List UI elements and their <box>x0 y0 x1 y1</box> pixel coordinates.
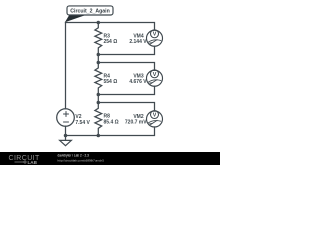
svg-text:V: V <box>153 113 157 119</box>
svg-text:V: V <box>153 72 157 78</box>
svg-text:4.676 V: 4.676 V <box>129 79 147 85</box>
svg-text:davidryter / Lab 2 - 2.3: davidryter / Lab 2 - 2.3 <box>58 154 90 158</box>
svg-text:720.7 mV: 720.7 mV <box>125 120 147 126</box>
svg-text:2.144 V: 2.144 V <box>129 39 147 45</box>
svg-text:LAB: LAB <box>28 160 38 165</box>
svg-text:http://circuitlab.com/c6898t7u: http://circuitlab.com/c6898t7umch5 <box>58 158 105 162</box>
svg-text:V2: V2 <box>75 114 81 120</box>
svg-text:R8: R8 <box>104 114 111 120</box>
svg-text:Circuit_2_Again: Circuit_2_Again <box>70 8 110 14</box>
svg-text:554 Ω: 554 Ω <box>104 79 118 85</box>
svg-text:7.54 V: 7.54 V <box>75 120 90 126</box>
svg-text:V: V <box>153 32 157 38</box>
svg-text:85.4 Ω: 85.4 Ω <box>104 120 119 126</box>
svg-text:254 Ω: 254 Ω <box>104 39 118 45</box>
